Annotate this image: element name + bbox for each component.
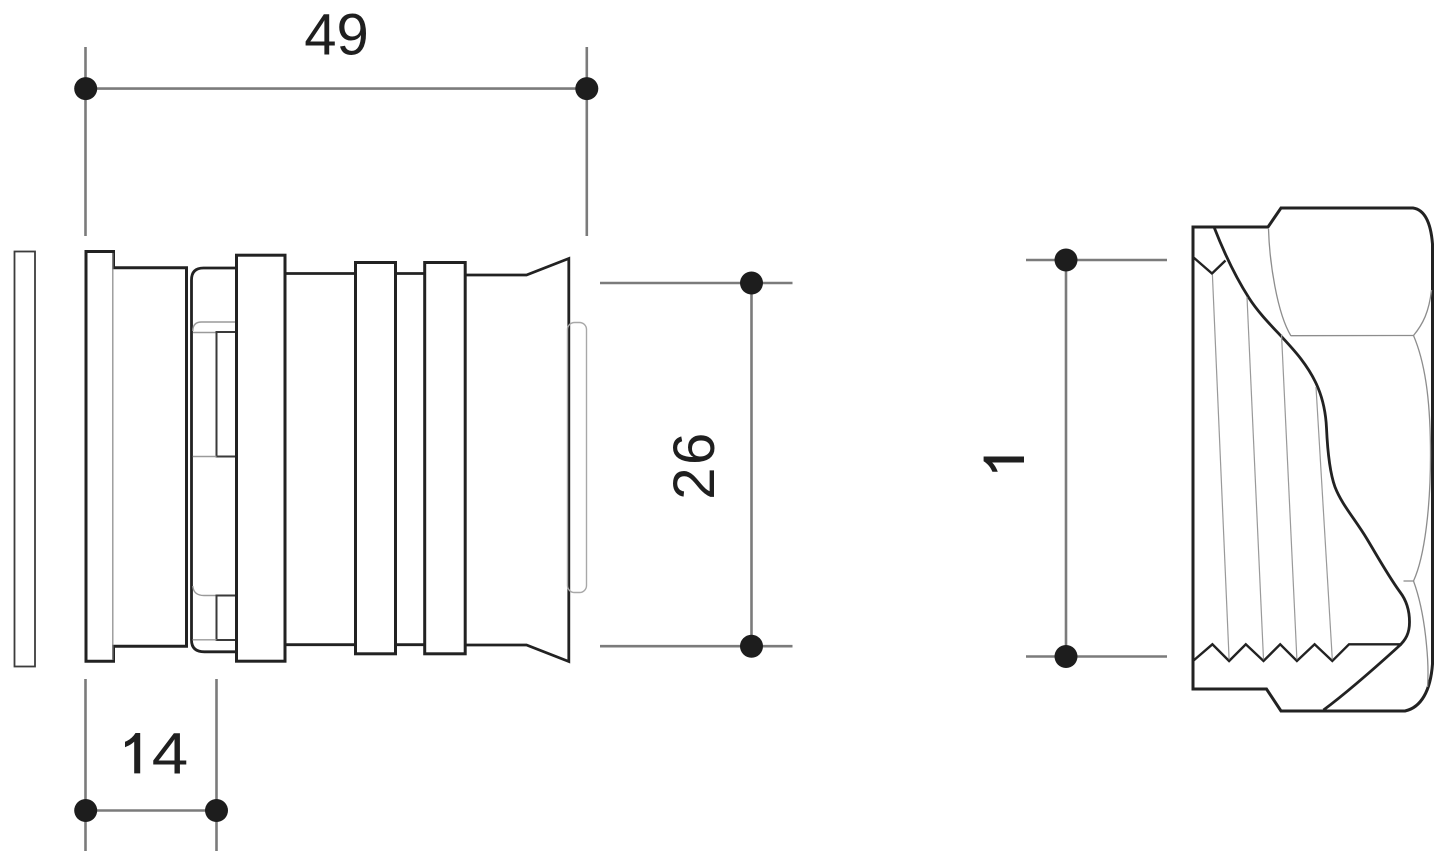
body segment 2 bottom (396, 643, 425, 646)
facet curve top-right up (1414, 290, 1432, 336)
svg-text:49: 49 (304, 3, 369, 68)
rib 3 (425, 263, 466, 654)
washer slice (15, 252, 36, 667)
nut cone S-curve (1214, 227, 1410, 710)
sleeve bottom window ledge (193, 639, 217, 641)
cap ring rib 1 (237, 255, 286, 661)
pipe end (568, 323, 587, 593)
nut bottom thread zigzag (1193, 644, 1402, 661)
dimension line 26 top (600, 282, 793, 285)
sleeve bottom window (217, 596, 238, 641)
dimension line 1 vertical (1065, 260, 1068, 657)
nut outline (1193, 208, 1433, 711)
nut top thread notch (1193, 257, 1226, 274)
dot 26 bottom (740, 635, 763, 658)
extension line left 49 (84, 47, 87, 236)
label 14 (125, 733, 140, 773)
sleeve top window (217, 332, 238, 457)
body segment 1 bottom (285, 643, 356, 646)
svg-text:26: 26 (662, 430, 727, 500)
facet curve right bulge (1414, 336, 1431, 582)
dot 1 bottom (1055, 645, 1078, 668)
flange crease line (112, 253, 114, 660)
dimension line 1 top (1026, 259, 1167, 262)
extension line right 14 (215, 679, 218, 851)
extension line right 49 (585, 47, 588, 236)
dot 26 top (740, 272, 763, 295)
facet curve top-left (1269, 229, 1292, 336)
facet curve bottom-right (1414, 581, 1429, 687)
dimension line 26 bottom (600, 645, 793, 648)
body segment 1 top (285, 272, 356, 275)
thread line 3 (1282, 334, 1297, 660)
thread line 1 (1212, 275, 1229, 660)
sleeve top window ledge (193, 332, 217, 334)
dot 14 left (74, 799, 97, 822)
flange (86, 252, 187, 662)
body segment 2 top (396, 272, 425, 275)
dimension line 26 vertical (750, 283, 753, 646)
sleeve top window bottom ledge (193, 456, 217, 458)
dimension line 1 bottom (1026, 655, 1167, 658)
thread line 2 (1247, 297, 1264, 660)
dimension line 14 (86, 809, 217, 812)
dot 49 left (74, 77, 97, 100)
dimension line 49 (86, 87, 587, 90)
dot 1 top (1055, 249, 1078, 272)
extension line left 14 (84, 679, 87, 851)
thread line 4 (1316, 387, 1332, 660)
sleeve bottom window arc (193, 586, 217, 596)
sleeve top window frame (193, 322, 237, 331)
facet line bottom horizontal (1404, 580, 1414, 582)
sleeve (192, 268, 237, 652)
svg-text:4: 4 (152, 722, 188, 787)
dot 49 right (575, 77, 598, 100)
dot 14 right (205, 799, 228, 822)
flared end section (465, 259, 569, 662)
label 1 (984, 457, 1024, 472)
rib 2 (356, 263, 396, 654)
facet line top horizontal (1291, 335, 1414, 337)
